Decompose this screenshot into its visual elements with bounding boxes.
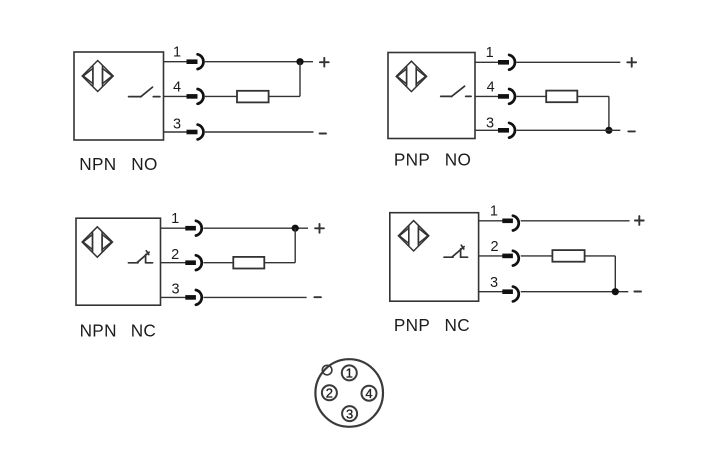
- svg-text:NPN: NPN: [79, 154, 116, 174]
- svg-text:NO: NO: [445, 150, 471, 170]
- junction dot node (pin1/pin2): [292, 225, 299, 232]
- wire pin1 stub: [479, 220, 503, 222]
- junction dot node (pin4/pin3): [605, 127, 612, 134]
- wire pin2 to resistor: [204, 262, 234, 264]
- sensor box U1 (NPN NO): [74, 52, 164, 140]
- wire resistor to vertical: [264, 262, 295, 264]
- minus terminal: [320, 133, 326, 135]
- plus terminal: [315, 224, 324, 233]
- wire pin2 to resistor: [521, 255, 553, 257]
- wire pin4 to resistor: [517, 95, 547, 97]
- resistor (load) on pin4: [546, 91, 577, 103]
- wire pin1 to +: [204, 227, 309, 229]
- svg-text:PNP: PNP: [394, 150, 430, 170]
- wire pin3 stub: [164, 131, 188, 133]
- plus terminal: [627, 58, 636, 67]
- connector plug pin2: [185, 255, 201, 270]
- junction dot node (pin1/pin4): [296, 58, 303, 65]
- svg-text:3: 3: [490, 275, 498, 291]
- plus terminal: [320, 58, 329, 67]
- wire pin3 to -: [521, 291, 629, 293]
- wire pin3 stub: [475, 129, 499, 131]
- wire pin1 to +: [517, 61, 621, 63]
- svg-text:4: 4: [487, 80, 495, 96]
- svg-text:2: 2: [326, 386, 333, 401]
- connector body circle: [315, 359, 383, 427]
- wire vertical pin4 up to pin1 junction: [299, 62, 301, 97]
- svg-text:1: 1: [346, 366, 353, 381]
- wire pin4 stub: [475, 95, 499, 97]
- svg-text:NC: NC: [131, 321, 156, 341]
- svg-text:3: 3: [346, 406, 353, 421]
- connector plug pin3: [187, 125, 204, 140]
- resistor (load) on pin2: [552, 250, 584, 262]
- svg-text:NC: NC: [445, 315, 470, 335]
- connector pin 3: [342, 406, 357, 421]
- junction dot node (pin2/pin3): [612, 288, 619, 295]
- wire pin1 to +: [521, 220, 630, 222]
- NC switch contact inside U3: [128, 251, 152, 263]
- sensor logo (diamond emblem) U1: [82, 61, 113, 92]
- minus terminal: [314, 296, 321, 298]
- svg-text:NPN: NPN: [80, 321, 117, 341]
- svg-text:3: 3: [486, 115, 494, 131]
- wire pin1 stub: [164, 61, 188, 63]
- wire pin1 stub: [161, 227, 186, 229]
- svg-text:4: 4: [365, 386, 372, 401]
- wire resistor to vertical: [585, 255, 616, 257]
- keying notch circle: [322, 365, 332, 375]
- connector plug pin4: [187, 89, 204, 104]
- sensor box U2 (PNP NO): [388, 53, 475, 139]
- connector plug pin4: [498, 89, 515, 104]
- svg-text:3: 3: [173, 116, 181, 132]
- plus terminal: [635, 216, 644, 225]
- wire vertical pin2 down to pin3 junction: [614, 256, 616, 292]
- connector plug pin1: [502, 216, 518, 231]
- sensor logo (diamond emblem) U4: [398, 221, 428, 251]
- NC switch contact inside U4: [444, 245, 468, 257]
- wire pin1 to +: [205, 61, 313, 63]
- svg-text:1: 1: [486, 45, 494, 61]
- svg-text:2: 2: [490, 239, 498, 255]
- connector plug pin3: [502, 287, 518, 302]
- svg-text:1: 1: [173, 45, 181, 61]
- wire pin2 stub: [479, 255, 503, 257]
- svg-text:1: 1: [171, 211, 179, 227]
- connector plug pin3: [498, 123, 515, 138]
- wire pin4 stub: [164, 95, 188, 97]
- svg-text:PNP: PNP: [394, 315, 430, 335]
- wire resistor to vertical: [577, 95, 609, 97]
- svg-text:4: 4: [173, 79, 181, 95]
- wire pin4 to resistor: [205, 95, 237, 97]
- svg-text:NO: NO: [131, 154, 157, 174]
- connector plug pin3: [185, 290, 201, 305]
- connector pin 4: [362, 386, 377, 401]
- wire pin1 stub: [475, 61, 499, 63]
- connector pin 1: [342, 365, 357, 380]
- connector plug pin2: [502, 251, 518, 266]
- wire pin3 to -: [204, 296, 307, 298]
- resistor (load) on pin4: [237, 91, 269, 103]
- wire pin3 to -: [205, 131, 314, 133]
- wire pin2 stub: [161, 262, 186, 264]
- connector pin 2: [322, 385, 337, 400]
- minus terminal: [634, 291, 641, 293]
- svg-text:2: 2: [171, 247, 179, 263]
- svg-text:1: 1: [490, 203, 498, 219]
- connector plug pin1: [187, 54, 204, 69]
- sensor box U3 (NPN NC): [76, 218, 161, 305]
- resistor (load) on pin2: [233, 257, 264, 269]
- sensor logo (diamond emblem) U3: [82, 227, 112, 257]
- wire vertical pin4 down to pin3 junction: [608, 96, 610, 130]
- wire pin3 stub: [479, 291, 503, 293]
- wire vertical pin2 up to pin1 junction: [294, 228, 296, 263]
- minus terminal: [628, 130, 635, 132]
- wire pin3 to -: [517, 129, 621, 131]
- wire resistor to vertical: [269, 95, 300, 97]
- connector plug pin1: [498, 55, 515, 70]
- svg-text:3: 3: [171, 282, 179, 298]
- sensor logo (diamond emblem) U2: [396, 61, 426, 91]
- NO switch contact inside U1: [129, 87, 160, 97]
- connector plug pin1: [185, 221, 201, 236]
- wire pin3 stub: [161, 296, 186, 298]
- sensor box U4 (PNP NC): [390, 213, 479, 302]
- NO switch contact inside U2: [441, 86, 471, 96]
